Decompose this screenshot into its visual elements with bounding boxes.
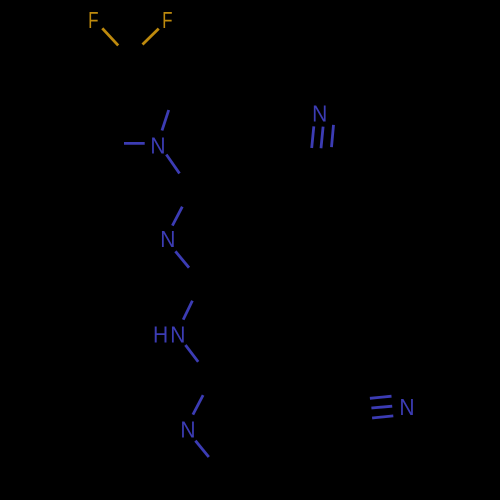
svg-text:N: N: [312, 100, 327, 126]
bond HN-C2(pyridine) lower stub: [185, 345, 198, 362]
bond N1(pyrrolidine)-CH stub: [166, 155, 179, 174]
svg-text:F: F: [162, 7, 172, 33]
nitrile 2 triple bond line bottom: [372, 416, 393, 418]
bond N2(imine)-CH stub: [172, 207, 182, 226]
bond N1(pyrrolidine)-C5 left stub: [124, 142, 145, 145]
nitrile 1 triple bond line right: [332, 125, 334, 147]
nitrile 2 triple bond line middle: [371, 406, 392, 408]
svg-text:N: N: [399, 394, 414, 420]
bond N2(imine)-C stub: [175, 251, 189, 267]
svg-text:N: N: [150, 132, 165, 158]
bond N1(pyrrolidine)-C2 upper stub: [162, 110, 169, 131]
bond F1-C (fluorine half): [102, 28, 118, 45]
nitrile 1 triple bond line middle: [321, 127, 323, 149]
bond N(pyridine)-C6 lower stub: [195, 441, 208, 457]
bond HN-C upper stub: [183, 301, 192, 320]
bond N(pyridine)-C2 upper stub: [193, 395, 203, 415]
svg-text:N: N: [180, 417, 195, 443]
svg-text:N: N: [160, 226, 175, 252]
nitrile 1 triple bond line left: [312, 126, 314, 148]
svg-text:N: N: [170, 322, 185, 348]
nitrile 2 triple bond line top: [370, 396, 392, 398]
svg-text:H: H: [153, 322, 168, 348]
svg-text:F: F: [88, 7, 98, 33]
bond F2-C (fluorine half): [143, 29, 159, 45]
